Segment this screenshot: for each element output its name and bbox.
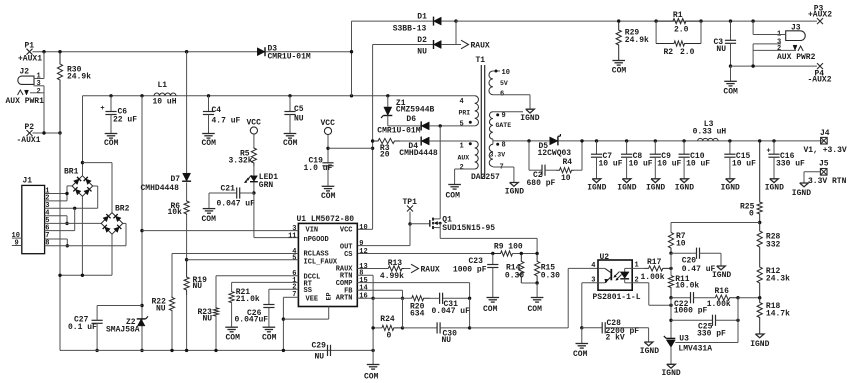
junction CS/R14 <box>520 252 523 255</box>
junction P2/R30 <box>58 131 61 134</box>
wire pin14 leg <box>402 298 404 328</box>
wire pin9 OUT <box>357 224 410 246</box>
svg-text:10: 10 <box>676 240 686 249</box>
resistor R17 <box>641 258 672 282</box>
ground COM C21 <box>202 209 217 225</box>
svg-text:10 uH: 10 uH <box>153 97 177 106</box>
junction R15 gnd <box>535 281 538 284</box>
svg-text:COM: COM <box>528 305 543 314</box>
svg-text:14: 14 <box>359 285 367 293</box>
svg-text:4: 4 <box>460 98 464 106</box>
snubber R4 <box>545 141 582 183</box>
junction VCC/R3 <box>371 139 374 142</box>
wire P1 to D3 <box>33 51 258 53</box>
svg-text:IGND: IGND <box>721 184 740 193</box>
svg-text:12CWQ03: 12CWQ03 <box>538 149 572 158</box>
svg-text:24.9k: 24.9k <box>625 36 649 45</box>
svg-text:0.047 uF: 0.047 uF <box>217 199 256 208</box>
svg-text:P2: P2 <box>25 123 35 132</box>
svg-text:C29: C29 <box>312 342 327 351</box>
svg-text:R2: R2 <box>664 48 674 57</box>
wire VCC right drop <box>327 135 329 163</box>
svg-text:11: 11 <box>288 232 296 240</box>
capacitor C20 <box>671 248 721 275</box>
net arrow RAUX pin13 <box>411 264 440 274</box>
svg-text:1.00k: 1.00k <box>707 300 731 309</box>
svg-text:COM: COM <box>612 67 627 76</box>
junction rail/C5 <box>288 94 291 97</box>
svg-text:10.0k: 10.0k <box>675 282 699 291</box>
capacitor C9 <box>646 139 682 192</box>
ground IGND T1 5V <box>520 109 539 123</box>
svg-text:12: 12 <box>359 248 367 256</box>
svg-text:VCC: VCC <box>247 119 262 128</box>
wire opto pin3 <box>582 283 598 328</box>
resistor R24 <box>380 315 402 340</box>
svg-text:R24: R24 <box>380 315 395 324</box>
capacitor C6 <box>100 96 137 134</box>
power VCC right <box>321 119 336 134</box>
svg-text:SUD15N15-95: SUD15N15-95 <box>442 224 495 233</box>
ground COM R29 <box>612 61 627 76</box>
wire input rail <box>83 95 475 97</box>
svg-text:NU: NU <box>193 282 203 291</box>
junction J1 pin3/6 <box>73 207 76 210</box>
svg-text:R16: R16 <box>715 287 730 296</box>
net arrow RAUX top <box>461 40 490 50</box>
resistor R16 <box>707 287 738 309</box>
zener Z1 CMZ5944B <box>381 96 435 126</box>
svg-text:5: 5 <box>292 254 296 262</box>
svg-text:5V: 5V <box>500 80 508 87</box>
resistor R13 <box>380 259 411 281</box>
junction C25/ref <box>736 319 739 322</box>
ground COM C5 <box>283 134 298 149</box>
wire VIN vertical <box>141 96 143 351</box>
svg-text:R9 100: R9 100 <box>494 243 523 252</box>
svg-text:0: 0 <box>387 331 392 340</box>
svg-text:SMAJ58A: SMAJ58A <box>106 326 140 335</box>
wire J1 pin8 to BR2 <box>45 223 126 245</box>
svg-text:R13: R13 <box>388 259 403 268</box>
ground IGND C20 <box>712 266 731 280</box>
svg-text:1000 pF: 1000 pF <box>453 265 487 274</box>
wire Q1 source <box>440 228 537 254</box>
wire opto pin2 <box>632 283 671 305</box>
svg-text:-AUX1: -AUX1 <box>17 136 41 145</box>
svg-text:330 pF: 330 pF <box>697 330 726 339</box>
junction J1 pin4/5 <box>65 222 68 225</box>
wire bridge minus bus <box>60 274 112 276</box>
wire J3 pin1 riser <box>752 21 754 34</box>
wire BR1 right leg <box>93 186 98 208</box>
svg-text:10k: 10k <box>168 208 183 217</box>
junction pin3/C28 <box>580 326 583 329</box>
connector J5 <box>804 160 847 187</box>
svg-text:D2: D2 <box>417 36 427 45</box>
junction FB node <box>669 296 672 299</box>
svg-text:4.99k: 4.99k <box>380 272 404 281</box>
ground COM C23 <box>483 298 499 314</box>
port P3 +AUX2 <box>808 5 832 25</box>
wire C19 tie <box>328 147 373 149</box>
svg-text:24.3k: 24.3k <box>766 275 790 284</box>
junction FB/opto2 <box>669 304 672 307</box>
ground COM C3 <box>723 66 738 96</box>
svg-text:IGND: IGND <box>765 184 784 193</box>
capacitor C16 <box>765 139 805 192</box>
svg-text:+AUX1: +AUX1 <box>18 55 42 64</box>
optocoupler U2 PS2801-1-L <box>591 253 640 302</box>
svg-text:NU: NU <box>156 304 166 313</box>
junction rail/Z1 <box>386 94 389 97</box>
svg-text:332: 332 <box>766 241 781 250</box>
svg-text:IGND: IGND <box>520 114 539 123</box>
port P1 +AUX1 <box>18 42 42 64</box>
wire VEE rail <box>60 349 373 351</box>
svg-text:5: 5 <box>460 120 464 128</box>
resistor R23 NU <box>198 307 219 350</box>
junction ARTN/RTN <box>371 297 374 300</box>
capacitor C28 <box>582 319 649 343</box>
wire pin10 VCC <box>357 228 372 230</box>
svg-text:IGND: IGND <box>505 188 524 197</box>
svg-text:P1: P1 <box>25 42 35 51</box>
wire VCC vertical <box>372 45 374 230</box>
svg-text:R4: R4 <box>563 158 573 167</box>
wire R16 to divider <box>738 297 760 299</box>
ground IGND T1 3.3V <box>505 183 524 197</box>
svg-text:CMHD4448: CMHD4448 <box>141 184 180 193</box>
svg-text:0: 0 <box>749 209 754 218</box>
svg-text:COM: COM <box>446 191 461 200</box>
power VCC left <box>247 119 262 134</box>
junction D1/D2 tie <box>454 19 457 44</box>
resistor R14 <box>505 254 524 284</box>
junction D6/Q1 drain <box>439 124 442 127</box>
resistor R5 <box>229 134 257 166</box>
svg-text:C20: C20 <box>682 256 697 265</box>
junction VCC/C19 <box>326 147 329 150</box>
junction rail/Z2 <box>140 349 143 352</box>
ground COM C26 <box>262 327 277 342</box>
junction J1 pin1/2 <box>65 192 68 195</box>
svg-text:C4: C4 <box>212 106 222 115</box>
junction snubber right <box>580 139 583 142</box>
svg-text:1: 1 <box>460 142 464 150</box>
transformer T1 gate winding <box>489 112 523 145</box>
ground COM T1 aux <box>446 185 461 201</box>
svg-text:2: 2 <box>37 88 41 96</box>
svg-text:GATE: GATE <box>496 122 512 129</box>
resistor R21 <box>229 288 260 327</box>
junction divider mid <box>758 296 761 299</box>
junction row1/pin14 <box>401 297 404 300</box>
svg-text:L1: L1 <box>158 81 168 90</box>
svg-text:IGND: IGND <box>646 184 665 193</box>
svg-text:VEE: VEE <box>306 296 319 304</box>
svg-text:0.1 uF: 0.1 uF <box>68 323 97 332</box>
junction P1/R30 <box>58 50 61 53</box>
connector J2 <box>6 68 45 107</box>
svg-text:CMR1U-01M: CMR1U-01M <box>377 126 420 135</box>
svg-text:COM: COM <box>283 139 298 148</box>
svg-text:0.047uF: 0.047uF <box>235 315 269 324</box>
svg-text:0.33 uH: 0.33 uH <box>693 128 727 137</box>
capacitor C21 <box>209 185 255 209</box>
svg-text:8: 8 <box>502 141 506 149</box>
inductor L3 <box>693 120 727 141</box>
diode D3 CMR1U-01M <box>257 44 311 61</box>
svg-text:RAUX: RAUX <box>421 265 440 274</box>
svg-text:IGND: IGND <box>712 271 731 280</box>
shunt U3 LMV431A <box>664 320 738 364</box>
svg-text:COM: COM <box>226 333 241 342</box>
capacitor C8 <box>617 139 653 192</box>
svg-text:0.30: 0.30 <box>541 272 560 281</box>
wire R14/R15 join <box>521 282 537 284</box>
wire row1 left <box>373 297 412 299</box>
svg-text:0.047 uF: 0.047 uF <box>432 307 471 316</box>
svg-text:3: 3 <box>37 80 41 88</box>
svg-text:IGND: IGND <box>617 184 636 193</box>
junction J1 pin7/8 <box>66 244 69 247</box>
ground COM C4 <box>202 134 217 149</box>
junction rail/J3 <box>751 19 754 22</box>
resistor R15 <box>535 254 561 284</box>
svg-text:10: 10 <box>502 69 510 77</box>
svg-text:J1: J1 <box>23 176 33 185</box>
wire D5 out <box>559 140 825 142</box>
resistor R2 <box>656 21 701 57</box>
svg-text:DA2257: DA2257 <box>471 173 500 182</box>
transformer T1 3.3V winding <box>489 141 514 182</box>
svg-text:8: 8 <box>45 240 49 248</box>
transformer T1 5V winding <box>489 69 530 109</box>
ground IGND C28 <box>640 328 659 356</box>
wire EP pad <box>283 307 328 320</box>
junction CS/C23 <box>491 252 494 255</box>
svg-text:VCC: VCC <box>340 227 353 235</box>
resistor R30 <box>57 52 91 133</box>
junction R7/R17 <box>669 267 672 270</box>
svg-text:J5: J5 <box>819 160 829 169</box>
junction P1/J2 <box>42 50 45 53</box>
wire CS line <box>357 253 537 255</box>
svg-text:9: 9 <box>502 112 506 120</box>
junction R7/C20 <box>669 252 672 255</box>
svg-text:1.0 uF: 1.0 uF <box>304 164 333 173</box>
junction C3/P4 wire <box>729 64 732 67</box>
svg-text:AUX: AUX <box>458 155 470 162</box>
svg-text:C21: C21 <box>221 185 236 194</box>
svg-text:4.7 uF: 4.7 uF <box>212 116 241 125</box>
junction feed/D3 <box>350 50 353 53</box>
svg-text:LMV431A: LMV431A <box>678 345 712 354</box>
junction VIN/U1 pin3 <box>140 229 143 232</box>
resistor R6 <box>168 183 190 218</box>
svg-text:4: 4 <box>591 262 595 270</box>
svg-text:COM: COM <box>262 333 277 342</box>
svg-text:9: 9 <box>15 240 19 248</box>
diode D6 CMR1U-01M <box>377 115 474 135</box>
wire FB vertical <box>670 298 672 339</box>
svg-text:+AUX2: +AUX2 <box>808 11 832 20</box>
junction rail/C27 <box>95 349 98 352</box>
bridge rectifier BR1 <box>64 168 93 197</box>
svg-text:EP: EP <box>326 292 333 300</box>
ground COM C19 <box>321 186 336 201</box>
wire pin16 ARTN <box>357 297 373 299</box>
junction gate node <box>408 222 411 225</box>
junction VCC/C19 wire <box>371 147 374 150</box>
junction R16/R12 <box>736 296 739 299</box>
bridge rectifier BR2 <box>101 205 129 235</box>
svg-text:20: 20 <box>380 150 390 159</box>
capacitor C10 <box>675 139 711 192</box>
svg-text:PRI: PRI <box>459 110 471 117</box>
junction row1 right <box>468 297 471 300</box>
wire BR2 feed <box>83 163 113 213</box>
svg-text:2 kV: 2 kV <box>606 334 625 343</box>
junction BR feed split <box>81 161 84 164</box>
ground COM VEE rail <box>364 350 379 381</box>
svg-text:10 uF: 10 uF <box>657 160 681 169</box>
svg-text:-AUX2: -AUX2 <box>808 76 832 85</box>
inductor L1 <box>153 81 177 106</box>
connector J4 <box>804 129 847 155</box>
resistor R29 <box>616 19 649 60</box>
wire J1 pin1 <box>45 193 67 195</box>
junction LED1/C21 <box>252 191 255 194</box>
svg-text:1.00k: 1.00k <box>641 273 665 282</box>
wire pin4 RCLASS <box>172 254 298 297</box>
wire J2 pin2/3 riser <box>43 86 45 133</box>
resistor R3 <box>373 138 400 159</box>
wire pin15 COMP <box>357 283 469 299</box>
junction R25/R28 <box>758 221 761 224</box>
svg-text:CS: CS <box>344 251 352 259</box>
wire D3 to feed <box>266 51 352 53</box>
svg-text:VCC: VCC <box>321 119 336 128</box>
transistor Q1 SUD15N15-95 <box>430 216 496 233</box>
junction rail/C6 <box>109 94 112 97</box>
junction P2/J2 <box>42 131 45 134</box>
capacitor C31 <box>430 293 470 316</box>
svg-text:R1: R1 <box>673 11 683 20</box>
svg-text:PS2801-1-L: PS2801-1-L <box>593 293 641 302</box>
svg-text:COM: COM <box>321 192 336 201</box>
resistor R28 <box>757 223 780 259</box>
wire pin1 RT <box>232 282 299 291</box>
ic U1 LM5072-80 <box>288 215 368 306</box>
svg-text:1000 pF: 1000 pF <box>674 307 708 316</box>
junction row2/ARTN <box>371 326 374 329</box>
wire pin8 RTN <box>357 275 373 298</box>
resistor R25 <box>740 139 762 222</box>
svg-text:ICL_FAUX: ICL_FAUX <box>304 258 338 266</box>
svg-text:BR2: BR2 <box>115 205 130 214</box>
wire J1 pin6 riser <box>45 208 75 230</box>
ground IGND R18 <box>750 334 769 349</box>
wire pin6 DCCL <box>216 276 298 307</box>
svg-text:634: 634 <box>410 310 425 319</box>
ground COM opto <box>573 328 588 359</box>
svg-text:COM: COM <box>364 372 379 381</box>
junction rail/VEE <box>282 349 285 352</box>
svg-text:680 pF: 680 pF <box>527 179 556 188</box>
svg-text:IGND: IGND <box>792 189 811 198</box>
resistor R20 <box>410 296 430 319</box>
svg-text:COM: COM <box>573 350 588 359</box>
junction FB/C25 <box>669 319 672 322</box>
wire J3 pin2/3 riser <box>752 44 754 66</box>
wire pin3 VIN <box>142 230 298 232</box>
ground COM R15 <box>528 283 544 314</box>
wire P4 <box>731 65 818 67</box>
svg-text:22 uF: 22 uF <box>113 116 137 125</box>
junction snubber left <box>527 139 530 142</box>
svg-text:9: 9 <box>359 240 363 248</box>
svg-text:C5: C5 <box>294 105 304 114</box>
svg-text:GRN: GRN <box>259 181 274 190</box>
svg-text:14.7k: 14.7k <box>766 310 790 319</box>
capacitor C30 NU <box>403 322 470 345</box>
resistor R22 NU <box>152 296 175 350</box>
capacitor C3 <box>714 19 737 66</box>
wire pin13 RAUX <box>357 268 388 270</box>
resistor R12 <box>757 258 790 298</box>
capacitor C25 <box>671 315 738 339</box>
svg-text:S3BB-13: S3BB-13 <box>393 25 427 34</box>
wire opto collector <box>568 267 598 269</box>
svg-text:CMHD4448: CMHD4448 <box>399 149 438 158</box>
wire LED1 to pin11 <box>254 193 299 238</box>
wire BR2 minus <box>111 234 113 275</box>
junction rail/top feed <box>350 94 353 97</box>
svg-text:3.32k: 3.32k <box>229 156 253 165</box>
wire ARTN vertical <box>372 298 374 350</box>
svg-text:D7: D7 <box>171 175 181 184</box>
svg-text:10 uF: 10 uF <box>732 160 756 169</box>
svg-text:nPGOOD: nPGOOD <box>304 236 329 244</box>
svg-text:2: 2 <box>777 45 781 53</box>
svg-text:10 uF: 10 uF <box>599 160 623 169</box>
svg-text:10: 10 <box>561 174 571 183</box>
wire J1 pin2 <box>45 200 67 202</box>
diode D2 NU <box>373 36 461 57</box>
junction rail/C4 <box>207 94 210 97</box>
svg-text:COM: COM <box>202 215 217 224</box>
wire J2 pin1 riser <box>43 52 45 79</box>
wire J1 pin7 <box>45 239 68 246</box>
wire top feed vertical <box>351 21 353 96</box>
svg-text:IGND: IGND <box>750 340 769 349</box>
svg-text:16: 16 <box>359 293 367 301</box>
junction row2 right <box>468 326 471 329</box>
svg-text:0.47 uF: 0.47 uF <box>682 265 716 274</box>
junction rail/ARTN <box>371 349 374 352</box>
wire row2 left <box>373 327 382 329</box>
svg-text:2.0: 2.0 <box>680 48 695 57</box>
svg-text:10 uF: 10 uF <box>686 160 710 169</box>
svg-text:0.30: 0.30 <box>505 272 524 281</box>
svg-text:NU: NU <box>294 115 304 124</box>
svg-text:RTN: RTN <box>340 272 353 280</box>
wire D7 feed <box>186 52 188 174</box>
svg-text:IGND: IGND <box>587 184 606 193</box>
svg-text:COM: COM <box>723 87 738 96</box>
